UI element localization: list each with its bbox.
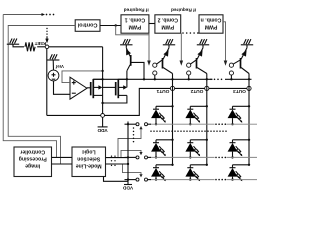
resistor RSET [25,42,35,51]
wire: mode-line logic bottom to VDD bus [104,177,129,182]
mode-line selection logic block [72,147,106,177]
LED D32 [185,165,200,181]
wire: LED column 1 vertical [171,79,173,166]
svg-text:Processing: Processing [19,156,47,162]
wire: matrix row 3 line [150,179,257,181]
wire: LED column 3 vertical [248,79,250,166]
ellipsis between PWM blocks [182,32,198,34]
terminal circles on OUT bus [170,86,251,90]
svg-text:Logic: Logic [82,149,96,155]
supply hatch for RSET [7,39,19,47]
transistor M1 [91,79,103,98]
wire: branch row 2 col 3 [233,139,250,141]
wire: matrix row 2 line [150,156,257,158]
wire: branch row 2 col 1 [156,139,173,141]
LED D11 [151,106,166,125]
ellipsis on row 3 [215,179,226,181]
svg-text:Selection: Selection [77,156,100,162]
supply hatch Q2 [163,39,175,48]
control arrow row switch 2 [121,150,143,157]
wire top-left data bus with arrowhead [3,13,45,16]
svg-text:Control: Control [77,22,97,28]
LED D21 [151,140,166,159]
dots cluster between logic and bus [111,156,116,167]
supply hatch Q4 [241,39,253,48]
wire: branch row 1 col 2 [190,105,207,107]
wire: hatch to resistor [13,46,24,48]
dotted stub above RSET terminal [46,28,47,38]
svg-text:VDD: VDD [122,185,133,191]
wire: branch row 1 col 1 [156,105,173,107]
wires mode-line logic to row bus [106,158,130,166]
svg-text:OUT1: OUT1 [156,88,169,94]
row switch row 1 [125,123,152,126]
supply hatch Q3 [197,39,209,48]
transistor Q2 [163,48,173,80]
svg-text:VDD: VDD [97,127,108,133]
svg-text:PWM: PWM [161,23,174,29]
svg-text:Mode-Line: Mode-Line [76,162,102,168]
transistor Q1 [126,48,131,80]
arrowhead up on dotted stub [45,39,48,44]
wire: branch row 3 col 3 [233,164,250,166]
wire: main mirror leg x=102.6 to VDD [101,47,103,127]
wire: RSET node down to matrix frame [46,49,48,116]
LED D33 [228,165,243,181]
svg-text:Comb. 2: Comb. 2 [157,16,178,22]
voltage source Vref [48,60,59,81]
PWM Comb. 1 block [121,15,149,33]
transistor Q3 [197,48,207,80]
ellipsis dots on rail [210,79,222,81]
wire: branch row 3 col 1 [156,164,173,166]
op-amp U1 [70,77,87,99]
dotted control bus [133,127,135,142]
supply hatch for Vref source [47,54,59,60]
control arrow row switch 1 [118,126,143,157]
wire: branch row 2 col 2 [190,139,207,141]
wire: Control to left rail [8,26,75,165]
svg-text:PWM: PWM [205,23,218,29]
switch S2 [187,60,196,80]
PWM Comb. n block [199,15,223,33]
wires between logic blocks [52,157,73,164]
transistor M2 [116,79,128,98]
power symbol VDD (matrix) [124,184,132,186]
control line PWMn to switch S3 [223,22,227,66]
wire: Q1 base tie to rail [132,62,145,79]
ellipsis dots on top bus [46,14,55,16]
wire: branch row 3 col 2 [190,164,207,166]
wire: branch row 1 col 3 [233,105,250,107]
wire: LED column 2 vertical [206,79,208,166]
svg-text:if Required: if Required [171,6,196,12]
ellipsis on row 1 [215,123,226,125]
switch S3 [229,60,240,80]
wire link PWM1-PWM2 [149,23,155,25]
wire: mirror gate link M1 body to M2 gate [103,86,116,88]
LED D31 [151,165,166,181]
LED D12 [185,106,200,125]
wire: collector rail [93,78,251,80]
svg-text:Vref: Vref [55,64,64,69]
switch S1 [153,60,162,80]
svg-text:OUT3: OUT3 [233,88,246,94]
svg-text:if Required: if Required [124,6,149,12]
ellipsis more rows [150,130,227,132]
wire: matrix row 1 line [150,123,257,125]
control line PWM2 to switch S2 [180,33,184,66]
arrow stem [46,38,48,40]
row switch row 2 [125,156,152,159]
wire: feedback from source node to op-amp + input [62,70,104,83]
junction dots on rail [126,78,250,80]
svg-text:Comb. n: Comb. n [201,16,222,22]
svg-text:Controller: Controller [20,149,45,155]
wire: RSET node to mirror leg [37,46,102,48]
LED D23 [228,140,243,159]
wire: M2 drain/source verticals [103,79,127,103]
ellipsis on row 2 [215,157,226,159]
wire: Control to PWM Comb blocks [100,24,149,35]
supply hatch Q1 [120,39,132,48]
control block [75,20,100,32]
transistor Q4 [241,48,250,80]
row switch row 3 [125,178,152,181]
control line PWM1 to switch S1 [147,33,151,66]
image processing controller block [14,147,52,177]
svg-text:PWM: PWM [129,23,142,29]
wire: op-amp output to M1 gate [87,87,91,89]
svg-text:Comb. 1: Comb. 1 [125,16,146,22]
svg-text:RSET: RSET [34,41,46,46]
power symbol VDD (mirror leg) [98,126,108,128]
terminal circle on RSET node [45,45,49,49]
wire: Vref to op-amp inverting input [54,81,71,94]
PWM Comb. 2 block [155,15,181,33]
svg-text:OUT2: OUT2 [190,88,203,94]
svg-text:Image: Image [25,162,40,168]
wire: frame line to OUT bus [47,88,252,115]
LED D13 [228,106,243,125]
LED D22 [185,140,200,159]
control arrow row switch 3 [123,164,143,177]
open circle crossing on frame line [101,114,105,118]
wire: row select bus [127,122,129,185]
wire: left vertical from top bus down to logic blocks [3,15,56,158]
